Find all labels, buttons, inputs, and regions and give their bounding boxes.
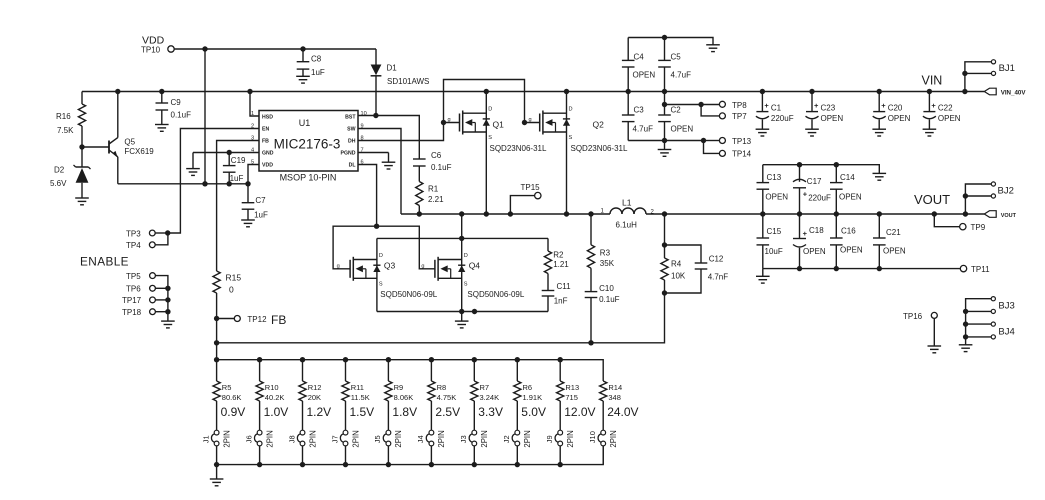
junction SW / Q2 source bbox=[564, 211, 569, 216]
svg-text:VOUT: VOUT bbox=[1001, 213, 1017, 219]
ground at output caps top bbox=[873, 172, 887, 174]
svg-text:R8: R8 bbox=[437, 383, 447, 392]
svg-text:1uF: 1uF bbox=[230, 174, 244, 183]
svg-text:g: g bbox=[448, 117, 451, 123]
svg-text:2PIN: 2PIN bbox=[308, 430, 317, 447]
ground below C1 bbox=[756, 128, 770, 130]
capacitor C6 0.1uF bbox=[413, 158, 426, 160]
junction top bus bbox=[343, 357, 348, 362]
junction VOUT rail / R4 bbox=[662, 211, 667, 216]
svg-text:5.6V: 5.6V bbox=[50, 179, 67, 188]
inductor L1 6.1uH bbox=[610, 208, 622, 214]
svg-text:BJ2: BJ2 bbox=[998, 185, 1014, 196]
junction top bus / FB column bbox=[214, 357, 219, 362]
svg-text:g: g bbox=[421, 263, 424, 269]
terminal TP7 bbox=[701, 105, 719, 116]
wire FB bus bbox=[217, 293, 665, 343]
junction DH / Q1 gate / Q2 gate route bbox=[441, 120, 446, 125]
svg-text:VOUT: VOUT bbox=[914, 192, 950, 207]
capacitor C2 OPEN bbox=[664, 92, 666, 116]
capacitor C9 0.1uF with ground bbox=[161, 92, 163, 104]
svg-text:OPEN: OPEN bbox=[765, 193, 788, 202]
tag VOUT bbox=[984, 211, 996, 218]
resistor R9 8.06K bbox=[387, 360, 389, 381]
svg-text:R3: R3 bbox=[600, 249, 611, 258]
svg-text:24.0V: 24.0V bbox=[607, 405, 638, 419]
wire VIN rail bbox=[82, 91, 984, 93]
junction VIN rail / Q5 collector bbox=[115, 89, 120, 94]
mosfet Q4 SQD50N06-09L bbox=[461, 238, 463, 311]
capacitor C13 OPEN bbox=[762, 165, 764, 183]
junction FB bus / R15 column bbox=[214, 340, 219, 345]
junction VOUT rail / C13 C15 bbox=[760, 211, 765, 216]
svg-text:R2: R2 bbox=[553, 251, 564, 260]
terminal TP8 bbox=[701, 104, 719, 106]
junction R4 / C12 bottom bbox=[662, 290, 667, 295]
svg-text:2PIN: 2PIN bbox=[566, 430, 575, 447]
svg-text:OPEN: OPEN bbox=[671, 125, 694, 134]
diode D1 SD101AWS bbox=[375, 49, 377, 65]
svg-text:C7: C7 bbox=[255, 196, 266, 205]
ground at pin4 GND bbox=[192, 153, 194, 169]
junction SW / Q1 source bbox=[484, 211, 489, 216]
svg-text:1.8V: 1.8V bbox=[392, 405, 417, 419]
svg-text:J1: J1 bbox=[201, 435, 210, 443]
jumper J7 2PIN bbox=[343, 430, 348, 435]
junction TP11 line / C16 bbox=[834, 266, 839, 271]
junction VOUT rail / BJ2 bbox=[963, 211, 968, 216]
capacitor C22 OPEN bbox=[928, 92, 930, 112]
junction FB bus / C10 bbox=[588, 340, 593, 345]
wire C4 C5 top line to ground bbox=[628, 38, 713, 45]
junction sources line bbox=[472, 309, 477, 314]
terminal TP15 bbox=[510, 196, 534, 214]
junction VIN rail / HSD riser bbox=[247, 89, 252, 94]
junction bottom bus bbox=[257, 462, 262, 467]
svg-text:1nF: 1nF bbox=[554, 297, 568, 306]
svg-text:220uF: 220uF bbox=[808, 194, 831, 203]
wire pin10 BST to C6 top bbox=[358, 116, 419, 160]
svg-text:C1: C1 bbox=[771, 104, 782, 113]
svg-text:Q2: Q2 bbox=[593, 120, 605, 130]
svg-text:R4: R4 bbox=[671, 260, 682, 269]
svg-text:C12: C12 bbox=[709, 255, 724, 264]
ground below BJ3 BJ4 bbox=[959, 344, 973, 346]
resistor R11 11.5K bbox=[345, 360, 347, 381]
wire divider top bus bbox=[217, 360, 604, 381]
svg-text:OPEN: OPEN bbox=[840, 246, 863, 255]
junction TP11 line / C18 bbox=[797, 266, 802, 271]
svg-text:R12: R12 bbox=[308, 383, 322, 392]
svg-text:R9: R9 bbox=[394, 383, 404, 392]
ground at C4 C5 top line bbox=[706, 44, 720, 46]
capacitor C7 1uF with ground bbox=[247, 184, 249, 203]
svg-text:FB: FB bbox=[271, 313, 286, 327]
svg-text:TP17: TP17 bbox=[122, 296, 142, 305]
svg-text:TP16: TP16 bbox=[903, 312, 923, 321]
svg-text:TP14: TP14 bbox=[732, 150, 752, 159]
capacitor C15 10uF bbox=[762, 214, 764, 238]
svg-text:2PIN: 2PIN bbox=[222, 430, 231, 447]
svg-text:1uF: 1uF bbox=[254, 211, 268, 220]
svg-text:HSD: HSD bbox=[262, 114, 273, 120]
svg-text:L1: L1 bbox=[622, 198, 632, 208]
junction VIN rail / C9 bbox=[159, 89, 164, 94]
terminal TP13 bbox=[704, 140, 720, 142]
junction VIN rail / C5 C2 column bbox=[662, 89, 667, 94]
jumper J5 2PIN bbox=[386, 430, 391, 435]
junction top bus bbox=[515, 357, 520, 362]
svg-text:SD101AWS: SD101AWS bbox=[387, 77, 429, 86]
capacitor C14 OPEN bbox=[835, 165, 837, 183]
svg-text:11.5K: 11.5K bbox=[351, 393, 370, 402]
ground at output caps bottom bbox=[762, 269, 764, 277]
svg-text:EN: EN bbox=[262, 127, 269, 133]
svg-text:U1: U1 bbox=[299, 118, 311, 128]
svg-text:1.5V: 1.5V bbox=[350, 405, 375, 419]
resistor R16 7.5K bbox=[81, 92, 83, 105]
svg-text:S: S bbox=[464, 282, 468, 288]
wire pin7 PGND to ground bbox=[358, 152, 389, 154]
capacitor C17 220uF bbox=[799, 165, 801, 182]
svg-text:R1: R1 bbox=[428, 185, 439, 194]
wire output caps ground line bbox=[763, 165, 880, 174]
svg-text:C2: C2 bbox=[671, 106, 682, 115]
wire C3 bottom line to TP13 bbox=[628, 140, 703, 142]
svg-text:S: S bbox=[488, 135, 492, 141]
svg-text:0.9V: 0.9V bbox=[221, 405, 246, 419]
jumper J6 2PIN bbox=[257, 430, 262, 435]
svg-text:2PIN: 2PIN bbox=[351, 430, 360, 447]
ground below C7 bbox=[241, 219, 255, 221]
junction VDD bus / C7 / pin5 riser bbox=[245, 181, 250, 186]
svg-text:SW: SW bbox=[347, 127, 355, 133]
svg-text:Q5: Q5 bbox=[124, 138, 135, 147]
svg-text:R11: R11 bbox=[351, 383, 364, 392]
svg-text:+: + bbox=[814, 101, 819, 110]
junction VIN rail / C1 bbox=[760, 89, 765, 94]
svg-text:10K: 10K bbox=[671, 272, 686, 281]
terminal TP17 bbox=[150, 297, 156, 303]
ground below C22 bbox=[923, 128, 937, 130]
wire pin4 GND to ground bbox=[193, 152, 259, 154]
jumper J9 2PIN bbox=[558, 430, 563, 435]
svg-text:MSOP 10-PIN: MSOP 10-PIN bbox=[280, 173, 337, 183]
svg-text:Q4: Q4 bbox=[469, 260, 481, 270]
svg-text:C16: C16 bbox=[841, 227, 856, 236]
capacitor C10 0.1uF bbox=[585, 291, 598, 293]
svg-text:20K: 20K bbox=[308, 393, 321, 402]
resistor R1 2.21 bbox=[416, 182, 423, 206]
svg-text:0.1uF: 0.1uF bbox=[599, 295, 620, 304]
svg-text:2PIN: 2PIN bbox=[265, 430, 274, 447]
jumper J2 2PIN bbox=[515, 430, 520, 435]
ground below C20 bbox=[872, 128, 886, 130]
terminal TP16 with ground bbox=[931, 312, 937, 318]
wire pin9 SW down to switch node bbox=[358, 129, 401, 215]
svg-text:1.21: 1.21 bbox=[553, 260, 569, 269]
svg-text:C18: C18 bbox=[809, 226, 824, 235]
wire switch node to L1 bbox=[401, 213, 610, 215]
junction VIN rail / Q1 drain bbox=[484, 89, 489, 94]
svg-text:BJ1: BJ1 bbox=[999, 63, 1015, 74]
svg-text:VDD: VDD bbox=[262, 163, 273, 169]
svg-text:6.1uH: 6.1uH bbox=[616, 221, 638, 230]
svg-text:D: D bbox=[488, 107, 492, 113]
resistor R7 3.24K bbox=[473, 360, 475, 381]
junction top bus bbox=[558, 357, 563, 362]
wire TP8 TP7 branch bbox=[665, 104, 702, 106]
ground at PGND bbox=[388, 153, 390, 163]
junction GND pin / C19 bbox=[227, 150, 232, 155]
wire TP11 line bbox=[763, 268, 961, 270]
wire pin6 DL to Q3 Q4 gates bbox=[358, 165, 377, 227]
svg-text:SQD23N06-31L: SQD23N06-31L bbox=[571, 144, 628, 153]
junction bottom line / C2 ground bbox=[662, 138, 667, 143]
junction bottom bus bbox=[214, 462, 219, 467]
capacitor C16 OPEN bbox=[835, 214, 837, 238]
junction R16 / D2 / Q5 base bbox=[79, 144, 84, 149]
junction VDD bus / vertical bbox=[202, 181, 207, 186]
zener diode D2 5.6V bbox=[81, 147, 83, 167]
terminal TP3 bbox=[149, 230, 155, 236]
svg-text:SQD50N06-09L: SQD50N06-09L bbox=[380, 290, 437, 299]
terminal TP12 FB bbox=[214, 316, 219, 321]
junction bottom bus bbox=[515, 462, 520, 467]
svg-text:C22: C22 bbox=[938, 104, 953, 113]
wire pin2 EN to TP3 TP4 bbox=[168, 129, 259, 234]
svg-text:OPEN: OPEN bbox=[839, 193, 862, 202]
capacitor C11 1nF bbox=[542, 290, 555, 292]
svg-text:4.7uF: 4.7uF bbox=[671, 71, 692, 80]
junction top line / C5 bbox=[662, 35, 667, 40]
svg-text:3.3V: 3.3V bbox=[478, 405, 503, 419]
svg-text:TP6: TP6 bbox=[126, 285, 141, 294]
mosfet Q3 SQD50N06-09L bbox=[376, 238, 378, 311]
wire pin8 DH to Q1 gate bbox=[358, 123, 460, 141]
junction VIN rail / C20 bbox=[877, 89, 882, 94]
svg-text:SQD50N06-09L: SQD50N06-09L bbox=[467, 290, 524, 299]
svg-text:0.1uF: 0.1uF bbox=[431, 163, 452, 172]
transistor Q5 FCX619 bbox=[82, 146, 109, 148]
junction top bus bbox=[472, 357, 477, 362]
svg-text:R5: R5 bbox=[222, 383, 232, 392]
junction Q2 gate bbox=[522, 120, 527, 125]
svg-text:TP5: TP5 bbox=[126, 272, 141, 281]
svg-text:4.7nF: 4.7nF bbox=[708, 273, 729, 282]
junction bottom bus bbox=[472, 462, 477, 467]
svg-text:R14: R14 bbox=[608, 383, 622, 392]
capacitor C1 220uF bbox=[761, 92, 763, 112]
svg-text:C19: C19 bbox=[231, 156, 246, 165]
svg-text:g: g bbox=[529, 117, 532, 123]
svg-text:40.2K: 40.2K bbox=[265, 393, 285, 402]
junction bottom bus bbox=[429, 462, 434, 467]
junction top bus bbox=[257, 357, 262, 362]
wire VDD vertical down to VDD bus bbox=[204, 49, 206, 184]
junction SW / R3 bbox=[588, 211, 593, 216]
svg-text:0.1uF: 0.1uF bbox=[171, 111, 192, 120]
resistor R4 10K bbox=[664, 214, 666, 245]
svg-text:+: + bbox=[803, 229, 808, 238]
svg-text:S: S bbox=[379, 282, 383, 288]
capacitor C20 OPEN bbox=[878, 92, 880, 112]
connector BJ2 bbox=[965, 184, 991, 214]
svg-text:FCX619: FCX619 bbox=[124, 147, 154, 156]
svg-text:C4: C4 bbox=[634, 53, 645, 62]
terminal TP6 bbox=[150, 285, 156, 291]
junction drains line / Q4 bbox=[459, 236, 464, 241]
svg-text:C20: C20 bbox=[888, 104, 903, 113]
svg-text:1.2V: 1.2V bbox=[307, 405, 332, 419]
jumper J8 2PIN bbox=[300, 430, 305, 435]
terminal TP4 bbox=[149, 242, 155, 248]
junction ground line / C17 bbox=[797, 162, 802, 167]
junction VIN rail / Q2 drain bbox=[564, 89, 569, 94]
svg-text:+: + bbox=[931, 101, 936, 110]
capacitor C21 OPEN bbox=[878, 214, 880, 238]
svg-text:C10: C10 bbox=[599, 284, 614, 293]
svg-text:R16: R16 bbox=[56, 112, 71, 121]
svg-text:1.91K: 1.91K bbox=[523, 393, 543, 402]
svg-text:2PIN: 2PIN bbox=[394, 430, 403, 447]
wire divider bottom bus bbox=[217, 446, 604, 465]
svg-text:D1: D1 bbox=[387, 64, 398, 73]
svg-text:715: 715 bbox=[565, 393, 578, 402]
ground at divider bottom bus bbox=[216, 465, 218, 479]
junction R4 / C12 top bbox=[662, 242, 667, 247]
junction VOUT rail / C14 C16 bbox=[834, 211, 839, 216]
svg-text:BJ3: BJ3 bbox=[998, 301, 1014, 312]
svg-text:MIC2176-3: MIC2176-3 bbox=[274, 137, 341, 152]
resistor R14 348 bbox=[600, 381, 607, 401]
wire drains line Q3 Q4 R2 bbox=[377, 237, 548, 239]
svg-text:DL: DL bbox=[349, 163, 357, 169]
svg-text:TP18: TP18 bbox=[122, 308, 142, 317]
junction top bus bbox=[386, 357, 391, 362]
junction TP11 line / C21 bbox=[877, 266, 882, 271]
svg-text:R10: R10 bbox=[265, 383, 279, 392]
junction C2 / TP8 branch bbox=[662, 102, 667, 107]
svg-text:1uF: 1uF bbox=[311, 68, 325, 77]
svg-text:1.0V: 1.0V bbox=[264, 405, 289, 419]
terminal TP5 bbox=[150, 273, 156, 279]
svg-text:+: + bbox=[881, 101, 886, 110]
tag VIN_40V bbox=[984, 88, 996, 95]
svg-text:J3: J3 bbox=[459, 435, 468, 443]
svg-text:TP12: TP12 bbox=[247, 315, 267, 324]
wire DL to Q3 gate bbox=[333, 226, 377, 269]
svg-text:C6: C6 bbox=[431, 151, 442, 160]
svg-text:VIN_40V: VIN_40V bbox=[1001, 89, 1027, 96]
capacitor C8 1uF with ground bbox=[302, 49, 304, 62]
resistor R2 1.21 bbox=[547, 238, 549, 251]
svg-text:BST: BST bbox=[345, 114, 356, 120]
svg-text:OPEN: OPEN bbox=[821, 114, 844, 123]
mosfet Q2 SQD23N06-31L bbox=[566, 92, 568, 215]
svg-text:GND: GND bbox=[262, 151, 274, 157]
junction top bus bbox=[429, 357, 434, 362]
svg-text:PGND: PGND bbox=[341, 151, 356, 157]
svg-text:J4: J4 bbox=[416, 435, 425, 443]
junction SW / TP15 bbox=[508, 211, 513, 216]
ground at Q3 Q4 sources bbox=[461, 312, 463, 322]
jumper J10 2PIN bbox=[601, 430, 606, 435]
svg-text:OPEN: OPEN bbox=[938, 114, 961, 123]
svg-text:J8: J8 bbox=[287, 435, 296, 443]
jumper J3 2PIN bbox=[472, 430, 477, 435]
junction VIN rail / BJ1 bbox=[962, 89, 967, 94]
svg-text:R6: R6 bbox=[523, 383, 533, 392]
resistor R6 1.91K bbox=[516, 360, 518, 381]
svg-text:TP15: TP15 bbox=[521, 183, 541, 192]
svg-text:35K: 35K bbox=[600, 259, 615, 268]
svg-text:J10: J10 bbox=[588, 431, 597, 443]
svg-text:R7: R7 bbox=[480, 383, 490, 392]
wire pin1 HSD to VIN rail bbox=[250, 92, 259, 117]
jumper J1 2PIN bbox=[214, 430, 219, 435]
svg-text:C13: C13 bbox=[767, 173, 782, 182]
junction EN / TP3 / TP4 bbox=[165, 230, 170, 235]
terminal TP10 bbox=[168, 46, 174, 52]
svg-text:OPEN: OPEN bbox=[803, 247, 826, 256]
svg-text:TP3: TP3 bbox=[126, 229, 141, 238]
resistor R12 20K bbox=[302, 360, 304, 381]
svg-text:C8: C8 bbox=[311, 55, 322, 64]
junction VDD line / VDD vertical bbox=[202, 46, 207, 51]
svg-text:C11: C11 bbox=[557, 282, 572, 291]
svg-text:C23: C23 bbox=[821, 104, 836, 113]
junction bottom bus bbox=[343, 462, 348, 467]
svg-text:SQD23N06-31L: SQD23N06-31L bbox=[490, 144, 547, 153]
ground below C9 bbox=[155, 124, 169, 126]
svg-text:R13: R13 bbox=[565, 383, 579, 392]
svg-text:2.21: 2.21 bbox=[428, 195, 444, 204]
capacitor C5 4.7uF bbox=[664, 38, 666, 61]
svg-text:TP11: TP11 bbox=[971, 265, 990, 274]
svg-text:C9: C9 bbox=[171, 98, 182, 107]
svg-text:12.0V: 12.0V bbox=[564, 405, 595, 419]
svg-text:2PIN: 2PIN bbox=[437, 430, 446, 447]
junction VIN rail / C23 bbox=[809, 89, 814, 94]
svg-text:3.24K: 3.24K bbox=[480, 393, 500, 402]
svg-text:C5: C5 bbox=[671, 53, 682, 62]
junction VOUT rail / C21 bbox=[877, 211, 882, 216]
svg-text:D: D bbox=[379, 253, 383, 259]
mosfet Q1 SQD23N06-31L bbox=[485, 92, 487, 215]
IC U1 MIC2176-3 MSOP 10-PIN bbox=[259, 111, 358, 172]
svg-text:ENABLE: ENABLE bbox=[80, 255, 129, 269]
svg-text:BJ4: BJ4 bbox=[998, 326, 1014, 337]
connector BJ1 bbox=[965, 62, 992, 92]
svg-text:g: g bbox=[337, 263, 340, 269]
resistor R3 35K bbox=[590, 214, 592, 245]
junction VDD line / C8 bbox=[300, 46, 305, 51]
svg-text:R15: R15 bbox=[226, 273, 242, 283]
junction bottom bus bbox=[300, 462, 305, 467]
ground below D2 bbox=[75, 197, 89, 199]
wire VDD bus to U1 pin5 area bbox=[118, 183, 248, 185]
capacitor C23 OPEN bbox=[811, 92, 813, 112]
svg-text:8.06K: 8.06K bbox=[394, 393, 414, 402]
svg-text:TP4: TP4 bbox=[126, 241, 141, 250]
junction TP8 TP7 bbox=[698, 102, 703, 107]
svg-text:+: + bbox=[764, 101, 769, 110]
svg-text:TP7: TP7 bbox=[732, 112, 747, 121]
svg-text:TP13: TP13 bbox=[732, 137, 752, 146]
svg-text:TP9: TP9 bbox=[971, 223, 986, 232]
svg-text:OPEN: OPEN bbox=[883, 247, 906, 256]
